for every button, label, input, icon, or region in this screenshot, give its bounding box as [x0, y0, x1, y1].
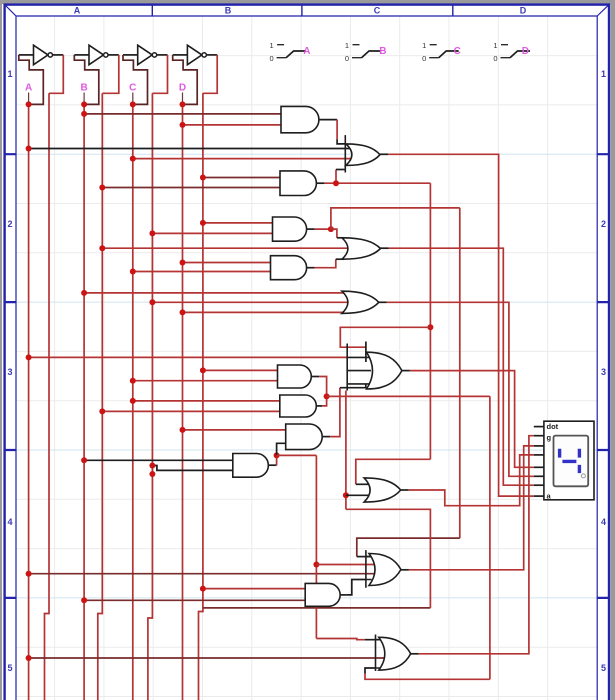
wire AND1 out to OR1 stem [336, 120, 338, 140]
wire branch to OR4 top [340, 327, 430, 347]
gray margin left [0, 0, 2, 700]
wire rail CnotDnot down [459, 208, 461, 538]
wire AND1 jog black [337, 139, 345, 144]
wire pin d stub [534, 466, 544, 468]
wire OR5 bottom stub [346, 494, 369, 496]
wire AND1 out stub [319, 119, 337, 121]
wire pin e stub [534, 454, 544, 456]
wire OR6 out stub [401, 569, 409, 571]
wire OR4 out stub [402, 370, 410, 372]
wire pin A stub [28, 93, 30, 105]
svg-text:B: B [379, 46, 386, 57]
wire OR7 bottom feed [365, 674, 490, 680]
switch input A [270, 41, 307, 63]
wire rail Dnot [199, 93, 203, 700]
junction Cnot to AND8 [149, 463, 155, 469]
wire rail to OR6 top [357, 538, 460, 557]
svg-text:0: 0 [493, 54, 497, 63]
junction Bnot to OR2 [99, 245, 105, 251]
not gate input wire C [123, 54, 138, 56]
svg-text:dot: dot [547, 422, 559, 431]
and gate AND7 [286, 424, 322, 450]
not gate U1 (A inverter) [34, 45, 64, 64]
svg-text:C: C [374, 6, 381, 16]
corner diagonal top-left [5, 5, 16, 16]
wire OR4 top jog black [365, 342, 367, 363]
wire OR1 out stub [380, 153, 388, 155]
svg-text:D: D [520, 6, 527, 16]
wire AND2 branch up to OR1 [335, 170, 337, 184]
wire AND2 branch jog [336, 169, 345, 171]
svg-text:1: 1 [7, 69, 12, 79]
and gate AND2 (Bnot.Dnot) [280, 171, 316, 196]
junction A to OR1 [26, 146, 32, 152]
wire D to AND4 in1 [183, 262, 271, 264]
junction OR6 in2 [313, 562, 319, 568]
not gate U4 (D inverter) [187, 45, 217, 64]
and gate AND1 (B.D) [281, 106, 319, 132]
wire AND4 out to OR2 bottom [315, 259, 336, 268]
seven segment display U10 [544, 421, 594, 500]
wire right rail BnotDnot down [429, 183, 431, 459]
wire AND8 riser to AND7 in2 [277, 443, 286, 455]
junction D to AND1 [180, 122, 186, 128]
svg-text:0: 0 [270, 54, 274, 63]
junction C to OR1 [130, 156, 136, 162]
and gate AND8 (B.Cnot) [233, 454, 269, 478]
svg-text:0: 0 [345, 54, 349, 63]
wire OR2 top stub [337, 237, 344, 239]
junction D to AND7 [180, 427, 186, 433]
svg-text:0: 0 [422, 54, 426, 63]
junction Bnot to AND2 [99, 185, 105, 191]
not gate input wire A [19, 54, 34, 56]
wire Dnot to AND5 in1 [203, 369, 278, 371]
wire pin B stub [83, 93, 85, 105]
wire C to OR1 in [133, 158, 351, 160]
wire B to AND8 in1 [84, 459, 233, 461]
junction OR5 bottom input [343, 492, 349, 498]
switch input C [422, 41, 459, 63]
junction C to AND4 [130, 269, 136, 275]
wire AND4 out stub [307, 267, 315, 269]
junction C to AND5 [130, 378, 136, 384]
svg-text:A: A [303, 46, 310, 57]
svg-text:D: D [522, 46, 529, 57]
wire OR2 bottom stub [336, 258, 344, 260]
svg-text:5: 5 [7, 663, 12, 673]
svg-text:B: B [225, 6, 232, 16]
wire OR7 top stub [365, 639, 382, 641]
svg-text:1: 1 [345, 41, 349, 50]
wire pin a stub [534, 495, 544, 497]
or gate OR5 (segment e) [364, 478, 401, 502]
svg-text:1: 1 [601, 69, 606, 79]
junction B to AND8 [81, 457, 87, 463]
svg-text:C: C [454, 46, 461, 57]
svg-text:B: B [80, 83, 87, 94]
wire A to OR7 in2 [29, 657, 384, 659]
or gate OR4 stem [347, 344, 371, 391]
svg-text:1: 1 [422, 41, 426, 50]
junction Cnot lower [149, 471, 155, 477]
and gate AND3 (Cnot.Dnot) [273, 217, 307, 241]
or gate OR6 stem [366, 550, 372, 588]
wire staircase from pin B to inverter input [74, 55, 99, 105]
wire Cnot jog to AND8 in2 [152, 466, 232, 471]
wire Cnot to AND3 in2 [152, 232, 272, 234]
or gate OR2 (segment b) [342, 238, 381, 259]
wire AND2 out stub [316, 182, 324, 184]
wire Dnot branch to lower right rail [203, 607, 431, 609]
wire Dnot to AND2 in1 [203, 177, 280, 179]
wire rail to OR5 top [356, 459, 431, 484]
junction Bnot to AND6 [99, 408, 105, 414]
junction Dnot to AND5 [200, 367, 206, 373]
wire AND3 out to junction [315, 228, 331, 230]
wire Bnot to AND2 in2 [102, 187, 280, 189]
wire OR5 out to pin e [409, 455, 534, 506]
wire pin dot stub [534, 426, 544, 428]
junction A to OR4 [26, 354, 32, 360]
not gate U3 (C inverter) [138, 45, 168, 64]
not gate U2 (B inverter) [89, 45, 119, 64]
svg-text:3: 3 [601, 367, 606, 377]
wire rail A [28, 104, 30, 700]
junction AND5 AND6 merge [324, 393, 330, 399]
wire AND5 out to junction [319, 377, 326, 397]
junction A to OR7 [26, 655, 32, 661]
wire C to AND4 in2 [133, 271, 271, 273]
wire OR4 stem bottom down to OR5 [345, 391, 347, 510]
wire AND3 up and right to OR6 rail [331, 208, 460, 229]
wire AND6 out stub [316, 405, 322, 407]
wire rail BCnot down [315, 455, 317, 638]
junction Dnot to AND9 [200, 586, 206, 592]
wire OR5 out stub [401, 489, 409, 491]
wire OR2 out to pin b [389, 248, 534, 485]
wire inverter B output loop down to rail [102, 55, 119, 93]
wire B to AND9 in2 [84, 599, 305, 601]
svg-text:1: 1 [270, 41, 274, 50]
junction pin B [81, 101, 87, 107]
junction B to OR3 [81, 290, 87, 296]
wire B to AND1 in1 [84, 113, 281, 115]
wire Cnot to OR3 in2 [152, 301, 349, 303]
svg-text:g: g [547, 433, 552, 442]
or gate OR7 (segment g) [379, 637, 411, 670]
wire OR4 out to pin d [410, 371, 534, 468]
junction A to OR6 [26, 571, 32, 577]
and gate AND6 (Bnot.C) [280, 395, 317, 417]
wire OR7 out to pin g [419, 436, 534, 654]
wire rail Anot [45, 93, 50, 700]
wire OR4 bottom jog black [340, 384, 366, 388]
wire OR2 out stub [381, 247, 389, 249]
junction D to AND4 [180, 260, 186, 266]
junction AND3 out [328, 226, 334, 232]
svg-text:C: C [129, 83, 136, 94]
wire OR1 out to pin a [388, 154, 534, 496]
svg-text:A: A [74, 6, 81, 16]
svg-text:D: D [179, 83, 186, 94]
wire D to AND7 in1 [183, 429, 286, 431]
wire Bnot to OR2 in2 [102, 247, 349, 249]
wire rail Cnot [148, 93, 153, 700]
svg-text:2: 2 [7, 219, 12, 229]
wire pin C stub [132, 93, 134, 105]
junction rail at OR4 branch [427, 324, 433, 330]
wire A to OR6 in3 [29, 573, 375, 575]
switch input B [345, 41, 382, 63]
frame row ticks [4, 154, 610, 598]
junction Dnot to AND3 [200, 220, 206, 226]
wire Bnot to AND6 in2 [102, 410, 279, 412]
wire merge net down to OR7 [489, 396, 491, 679]
wire A to OR4 in [29, 356, 348, 358]
wire AND7 out stub [322, 436, 330, 438]
wire staircase from pin A to inverter input [19, 55, 44, 105]
wire rail B [83, 104, 85, 700]
svg-text:4: 4 [601, 517, 606, 527]
or gate OR3 (segment c) [342, 291, 379, 313]
wire D to AND1 in2 [183, 124, 282, 126]
wire rail D [182, 104, 184, 700]
wire B to OR3 in1 [84, 292, 347, 294]
junction Cnot to OR3 [149, 299, 155, 305]
junction Dnot to AND2 [200, 175, 206, 181]
junction B to AND9 [81, 597, 87, 603]
and gate AND5 [278, 365, 312, 388]
wire gamma route to Dnot rail [346, 509, 431, 608]
junction C to AND6 [130, 398, 136, 404]
wire pin b stub [534, 484, 544, 486]
junction AND2 out [333, 180, 339, 186]
wire pin g stub [534, 435, 544, 437]
and gate AND9 (B.Dnot) [305, 583, 340, 606]
junction B to AND1 [81, 111, 87, 117]
corner diagonal top-right [597, 5, 608, 16]
gray margin top [0, 0, 615, 4]
wire rail Bnot [98, 93, 103, 700]
svg-text:2: 2 [601, 219, 606, 229]
junction AND8 out [274, 452, 280, 458]
wire AND8 branch to rail [277, 454, 317, 456]
junction D to OR3 [180, 309, 186, 315]
or gate OR7 stem [376, 635, 382, 672]
wire pin c stub [534, 475, 544, 477]
wire OR3 out stub [379, 301, 387, 303]
wire OR6 out to pin f [409, 446, 534, 570]
svg-text:A: A [25, 83, 32, 94]
frame column ticks [152, 4, 453, 16]
wire AND8 out riser [276, 455, 278, 465]
or gate OR1 (segment a) [346, 144, 380, 166]
gray margin right [611, 0, 615, 700]
wire AND3 out stub [307, 228, 315, 230]
wire inverter D output loop down to rail [203, 55, 217, 93]
wire inverter C output loop down to rail [152, 55, 167, 93]
switch input D [493, 41, 530, 63]
wire OR7 bottom jog [365, 668, 376, 674]
wire A to OR1 in [29, 148, 351, 150]
wire staircase from pin C to inverter input [123, 55, 148, 105]
wire rail to OR7 top [316, 639, 365, 640]
wire OR6 top stub [357, 556, 372, 558]
or gate OR4 (segment d) [367, 352, 402, 389]
not gate input wire D [173, 54, 188, 56]
wire pin f stub [534, 445, 544, 447]
or gate OR1 stem [344, 135, 346, 172]
wire rail C [132, 104, 134, 700]
wire Dnot to AND3 in1 [203, 222, 273, 224]
wire rail to OR6 in2 [316, 564, 375, 566]
wire AND3 jog to OR2 top [331, 229, 337, 238]
junction pin C [130, 101, 136, 107]
wire C to AND6 in1 [133, 400, 280, 402]
wire inverter A output loop down to rail [49, 55, 63, 93]
svg-text:1: 1 [493, 41, 497, 50]
wire AND9 out stub [340, 594, 346, 596]
wire OR7 out stub [411, 653, 419, 655]
wire AND2 out line to right rail [324, 182, 430, 184]
or gate OR6 (segment f) [369, 554, 401, 586]
wire AND9 out jog to OR6 bottom [346, 580, 366, 595]
wire AND6 out up to junction [322, 396, 326, 406]
wire AND5 out stub [311, 376, 319, 378]
wire merge line to right [327, 395, 490, 397]
not gate input wire B [74, 54, 89, 56]
wire C to AND5 in2 [133, 380, 278, 382]
wire Dnot to AND9 in1 [203, 588, 305, 590]
wire AND8 out stub [268, 464, 276, 466]
wire OR5 top stub [356, 483, 369, 485]
wire staircase from pin D to inverter input [173, 55, 198, 105]
junction pin A [26, 101, 32, 107]
svg-text:3: 3 [7, 367, 12, 377]
wire AND7 out riser [330, 388, 340, 437]
junction Cnot to AND3 [149, 230, 155, 236]
svg-text:5: 5 [601, 663, 606, 673]
and gate AND4 (C.D) [271, 256, 307, 280]
svg-text:4: 4 [7, 517, 12, 527]
wire pin D stub [182, 93, 184, 105]
junction pin D [180, 101, 186, 107]
wire D to OR3 in3 [183, 311, 348, 313]
wire OR3 out to pin c [387, 302, 534, 476]
